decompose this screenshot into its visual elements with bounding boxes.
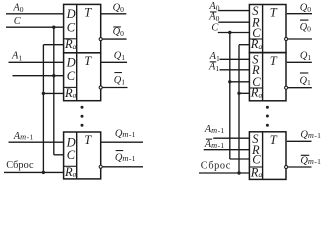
wire output Q1 [101,61,127,63]
inverter bubble nQ1 right [285,86,288,89]
wire nA1 to R input of DS2 [220,69,250,71]
wire C to C input of DS1 [218,32,250,34]
junction reset bus / DD2 Ra left [42,92,45,95]
svg-text:Am-1: Am-1 [204,124,225,135]
inverter bubble nQm-1 right [285,165,288,168]
wire reset bus vertical [42,45,44,173]
wire A0 to D input of DD1 [6,13,64,15]
wire output Q1 right [287,61,312,63]
flip-flop DS2 body [249,53,286,101]
svg-text:D: D [66,7,76,21]
svg-text:Q1: Q1 [300,50,312,62]
svg-text:T: T [270,54,278,68]
svg-text:Q0: Q0 [300,2,312,14]
svg-text:C: C [67,148,76,162]
svg-text:T: T [84,133,92,147]
wire Am-1 to S input of DSm [213,137,249,139]
svg-text:Am-1: Am-1 [13,131,34,142]
flip-flop DDm body [64,132,101,179]
junction C bus / C wire right [228,31,231,34]
wire reset to Ra input of DS2 [239,92,249,94]
junction reset bus / Сброс left [42,171,45,174]
flip-flop DS2 control column divider [262,53,264,101]
junction reset bus / Сброс right [237,171,240,174]
flip-flop DD1 Ra separator [64,38,77,40]
wire output nQm-1 [102,166,143,168]
svg-text:T: T [270,6,278,20]
flip-flop DD2 body [64,53,101,101]
svg-text:T: T [270,133,278,147]
flip-flop DS2 Ra separator [249,87,262,89]
junction C bus / DS2 C right [228,80,231,83]
wire A1 to S input of DS2 [220,58,250,60]
wire C bus to C input of DS2 [230,81,250,83]
ellipsis dots left [81,106,84,109]
flip-flop DD2 Ra separator [64,86,77,88]
flip-flop DD1 body [64,4,101,52]
svg-text:C: C [67,21,76,35]
wire output Qm-1 [101,141,143,143]
svg-text:Qm-1: Qm-1 [115,129,136,140]
svg-text:T: T [84,6,92,20]
svg-text:D: D [66,56,76,70]
flip-flop DS1 body [249,5,286,53]
overbar nQm-1 right [301,155,309,156]
wire Сброс to Ra input of DDm [4,171,64,173]
svg-text:Qm-1: Qm-1 [300,155,321,166]
wire Am-1 to D input of DDm [9,141,64,143]
wire A1 to D input of DD2 [9,61,64,63]
flip-flop DD1 control column divider [76,4,78,52]
svg-text:Ra: Ra [64,165,77,179]
svg-text:C: C [67,69,76,83]
svg-text:C: C [211,22,219,33]
wire output nQ1 [102,87,127,89]
wire C bus vertical [53,27,55,155]
wire A0 to S input of DS1 [218,10,249,12]
inverter bubble nQ0 right [285,37,288,40]
junction C bus / DD2 C left [52,74,55,77]
svg-text:Q1: Q1 [300,75,312,87]
junction C bus / C wire left [52,26,55,29]
overbar nA0 right [210,11,217,12]
wire output Q0 right [287,13,312,15]
svg-text:Am-1: Am-1 [204,139,225,150]
svg-text:C: C [14,16,22,27]
flip-flop DSm Ra separator [249,166,262,168]
wire reset to Ra input of DS1 [239,44,249,46]
svg-text:A1: A1 [208,61,219,73]
wire reset to Ra input of DD1 [43,44,63,46]
overbar nQ1 left [114,72,122,73]
svg-text:Q0: Q0 [300,22,312,34]
overbar nQ0 right [300,20,308,21]
wire C bus to C input of DDm [54,154,64,156]
wire to C input of DD2 [13,75,64,77]
svg-text:A1: A1 [11,51,22,63]
wire nA0 to R input of DS1 [218,21,249,23]
wire nAm-1 to R input of DSm [204,149,250,151]
svg-text:Сброс: Сброс [201,160,231,171]
inverter bubble nQ0 left [99,38,102,41]
flip-flop DSm body [249,132,286,180]
wire output Q0 [101,13,127,15]
wire output nQm-1 right [288,166,312,168]
wire C bus vertical right [229,33,231,160]
flip-flop DD2 control column divider [76,53,78,101]
wire output nQ0 right [288,38,312,40]
svg-text:C: C [252,152,261,166]
wire reset bus vertical right [238,45,240,173]
svg-text:Qm-1: Qm-1 [300,130,321,141]
overbar nQm-1 left [116,150,124,151]
svg-text:Qm-1: Qm-1 [115,153,136,164]
wire C to C input of DD1 [6,26,64,28]
wire output Qm-1 right [287,140,312,142]
svg-text:Q1: Q1 [114,50,126,62]
overbar nQ0 left [113,26,121,27]
flip-flop DDm Ra separator [64,165,77,167]
inverter bubble nQ1 left [99,86,102,89]
overbar nAm-1 right [206,139,212,140]
svg-text:Q0: Q0 [113,26,125,38]
wire Сброс to Ra input of DSm [199,172,249,174]
wire reset to Ra input of DD2 [43,92,63,94]
flip-flop DS1 control column divider [262,5,264,53]
flip-flop DSm control column divider [262,132,264,180]
svg-text:Q1: Q1 [114,75,126,87]
junction reset bus / DS2 Ra right [237,92,240,95]
svg-text:A0: A0 [12,2,23,14]
svg-text:Сброс: Сброс [6,160,34,171]
wire output nQ0 [102,38,126,40]
inverter bubble nQm-1 left [99,165,102,168]
wire output nQ1 right [288,87,312,89]
svg-text:T: T [84,54,92,68]
wire C bus to C input of DSm [230,158,250,160]
ellipsis dots right [266,106,269,109]
flip-flop DDm control column divider [76,132,78,179]
svg-text:Q0: Q0 [113,2,125,14]
flip-flop DS1 Ra separator [249,38,262,40]
overbar nQ1 right [300,72,308,73]
overbar nA1 right [210,61,217,62]
